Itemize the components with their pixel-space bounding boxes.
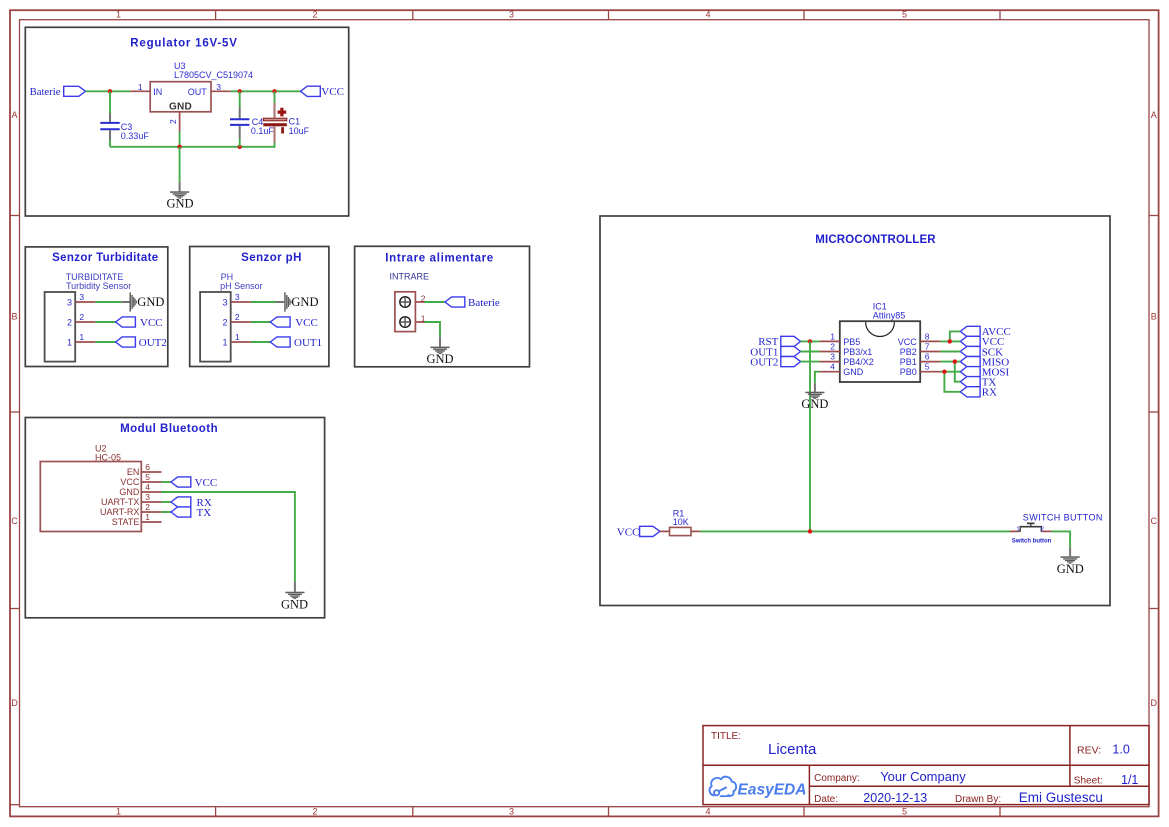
- connector terminal circle pin 1: [400, 317, 411, 328]
- svg-text:INTRARE: INTRARE: [390, 271, 430, 281]
- svg-text:2: 2: [222, 317, 227, 327]
- svg-text:pH Sensor: pH Sensor: [220, 281, 263, 291]
- svg-text:10uF: 10uF: [289, 126, 310, 136]
- bottom rail wire R1 to switch: [700, 530, 1010, 532]
- wire IC1 pin 5 to MOSI flag: [941, 371, 961, 373]
- connector pin 2: [415, 301, 424, 303]
- svg-text:1: 1: [116, 807, 121, 817]
- svg-text:1: 1: [830, 331, 835, 341]
- wire junction down to C4: [239, 91, 241, 107]
- IC1 pin 1 PB5: [819, 340, 840, 342]
- wire U2 UART-RX to TX flag: [162, 511, 172, 513]
- svg-text:Company:: Company:: [814, 773, 860, 784]
- wire MOSI junction down to RX: [944, 372, 960, 392]
- svg-text:2: 2: [312, 10, 317, 20]
- wire junction down to C3: [109, 91, 111, 113]
- IC1 pin 3 PB4/X2: [819, 361, 840, 363]
- wire OUT2 to IC1 pin 3: [801, 361, 820, 363]
- net flag AVCC micro: [960, 326, 980, 336]
- wire pH pin 2 to VCC: [251, 321, 271, 323]
- wire turbidity pin 3 to ground: [95, 301, 121, 303]
- svg-text:1: 1: [1016, 526, 1020, 533]
- svg-text:C1: C1: [289, 117, 301, 127]
- R1 pin 2: [691, 530, 700, 532]
- svg-text:C: C: [11, 516, 18, 526]
- U2 pin 4 GND: [141, 491, 161, 493]
- net flag OUT1 pH: [270, 337, 290, 347]
- svg-text:Regulator 16V-5V: Regulator 16V-5V: [130, 37, 237, 49]
- svg-text:3: 3: [235, 292, 240, 302]
- IC1 pin 5 PB0: [920, 371, 940, 373]
- net flag VCC turbidity: [116, 317, 136, 327]
- svg-text:OUT: OUT: [188, 87, 208, 97]
- net flag RST: [781, 336, 801, 346]
- wire IC1 pin 8 to VCC flag: [941, 340, 961, 342]
- svg-text:2020-12-13: 2020-12-13: [863, 791, 927, 805]
- svg-text:1: 1: [145, 512, 150, 522]
- svg-text:4: 4: [830, 362, 835, 372]
- svg-text:VCC: VCC: [140, 317, 163, 329]
- wire down to ground: [179, 147, 181, 182]
- turbidity pin 2: [75, 321, 95, 323]
- svg-text:5: 5: [902, 807, 907, 817]
- U3 pin 2: [179, 112, 181, 132]
- svg-text:D: D: [11, 698, 18, 708]
- svg-text:VCC: VCC: [195, 477, 218, 489]
- svg-text:3: 3: [79, 292, 84, 302]
- capacitor C1 polarized: [273, 103, 275, 118]
- section box MICROCONTROLLER: [600, 216, 1110, 606]
- junction node bottom rail: [808, 529, 812, 533]
- svg-text:8: 8: [925, 331, 930, 341]
- svg-text:2: 2: [312, 807, 317, 817]
- bottom rail wire: [110, 146, 275, 148]
- svg-text:GND: GND: [426, 352, 453, 366]
- svg-text:RX: RX: [982, 387, 997, 399]
- U3 pin 1: [130, 90, 150, 92]
- svg-text:2: 2: [67, 317, 72, 327]
- IC1 pin 2 PB3/x1: [819, 351, 840, 353]
- svg-text:Drawn By:: Drawn By:: [955, 794, 1001, 805]
- svg-text:GND: GND: [166, 197, 193, 211]
- svg-text:VCC: VCC: [120, 477, 140, 487]
- ground symbol bluetooth: [285, 592, 304, 599]
- svg-text:Intrare alimentare: Intrare alimentare: [385, 252, 494, 264]
- svg-text:3: 3: [222, 297, 227, 307]
- svg-text:Date:: Date:: [814, 794, 838, 805]
- svg-text:UART-RX: UART-RX: [100, 507, 139, 517]
- ground lead intrare: [439, 337, 441, 347]
- junction node pin 6: [953, 359, 957, 363]
- frame column labels bottom: [116, 807, 907, 817]
- svg-text:OUT2: OUT2: [139, 337, 167, 349]
- svg-text:Turbidity Sensor: Turbidity Sensor: [66, 281, 131, 291]
- wire turbidity pin 1 to OUT2: [95, 341, 115, 343]
- svg-text:A: A: [11, 110, 17, 120]
- wire C3 to bottom rail: [109, 140, 111, 147]
- IC1 pin 8 VCC: [920, 340, 940, 342]
- frame row ticks left: [10, 216, 20, 609]
- frame row labels left: [11, 110, 18, 708]
- svg-text:GND: GND: [119, 487, 140, 497]
- ground lead IC1: [814, 383, 816, 392]
- U3 pin 3: [211, 90, 231, 92]
- svg-text:7: 7: [925, 342, 930, 352]
- frame column labels top: [116, 10, 907, 20]
- pH pin 3: [231, 301, 251, 303]
- wire Baterie to U3 pin 1: [86, 90, 131, 92]
- svg-text:1: 1: [222, 337, 227, 347]
- svg-text:1.0: 1.0: [1112, 743, 1129, 757]
- wire C1 to bottom rail corner: [274, 143, 275, 147]
- net flag MISO micro: [960, 357, 980, 367]
- svg-text:GND: GND: [281, 597, 308, 611]
- ground symbol switch: [1061, 556, 1080, 563]
- IC1 pin 7 PB2: [920, 351, 940, 353]
- ground lead bluetooth: [294, 582, 296, 592]
- wire connector pin 2 to Baterie: [424, 301, 445, 303]
- ground lead switch: [1069, 547, 1071, 556]
- svg-text:VCC: VCC: [295, 317, 318, 329]
- svg-text:6: 6: [145, 462, 150, 472]
- wire U2 UART-TX to RX flag: [162, 501, 172, 503]
- junction node GND rail: [177, 145, 181, 149]
- pH pin 2: [231, 321, 251, 323]
- svg-text:4: 4: [145, 482, 150, 492]
- net flag TX micro: [960, 377, 980, 387]
- svg-text:MICROCONTROLLER: MICROCONTROLLER: [815, 234, 936, 246]
- svg-text:1: 1: [235, 332, 240, 342]
- svg-text:5: 5: [902, 10, 907, 20]
- EasyEDA logo: [710, 777, 737, 797]
- svg-text:GND: GND: [843, 367, 864, 377]
- svg-text:GND: GND: [1057, 562, 1084, 576]
- svg-text:GND: GND: [801, 397, 828, 411]
- svg-text:1: 1: [67, 337, 72, 347]
- wire IC1 pin 6 to MISO flag: [941, 361, 961, 363]
- IC1 notch: [866, 322, 895, 336]
- svg-text:Senzor Turbiditate: Senzor Turbiditate: [52, 252, 158, 264]
- svg-text:STATE: STATE: [112, 517, 140, 527]
- svg-text:2: 2: [235, 312, 240, 322]
- net flag VCC bluetooth: [171, 477, 191, 487]
- section box Intrare alimentare: [355, 246, 530, 366]
- junction node C3 top: [108, 89, 112, 93]
- svg-text:5: 5: [145, 472, 150, 482]
- section box Regulator 16V-5V: [25, 27, 348, 216]
- svg-text:PB4/X2: PB4/X2: [843, 357, 874, 367]
- junction node C1 top: [272, 89, 276, 93]
- ground symbol regulator: [170, 191, 189, 198]
- wire OUT1 to IC1 pin 2: [801, 351, 820, 353]
- svg-text:A: A: [1151, 110, 1157, 120]
- svg-text:L7805CV_C519074: L7805CV_C519074: [174, 70, 253, 80]
- svg-text:3: 3: [509, 807, 514, 817]
- svg-text:EN: EN: [127, 467, 140, 477]
- U2 pin 5 VCC: [141, 481, 161, 483]
- svg-text:4: 4: [705, 807, 710, 817]
- svg-text:Switch button: Switch button: [1012, 538, 1052, 544]
- svg-text:SWITCH BUTTON: SWITCH BUTTON: [1023, 513, 1103, 523]
- wire pH pin 3 to ground: [251, 301, 276, 303]
- svg-text:IN: IN: [153, 87, 162, 97]
- svg-text:3: 3: [830, 352, 835, 362]
- svg-text:Your Company: Your Company: [880, 769, 966, 784]
- capacitor C3: [109, 114, 111, 122]
- wire IC1 GND pin elbow: [815, 372, 819, 384]
- wire pH pin 1 to OUT1: [251, 341, 271, 343]
- net flag OUT1: [781, 346, 801, 356]
- svg-text:OUT2: OUT2: [750, 356, 778, 368]
- svg-text:3: 3: [509, 10, 514, 20]
- svg-text:Emi Gustescu: Emi Gustescu: [1019, 790, 1103, 805]
- net flag VCC regulator: [301, 86, 321, 96]
- net flag SCK micro: [960, 346, 980, 356]
- net flag OUT2 micro: [781, 357, 801, 367]
- wire MISO junction down to TX: [955, 362, 961, 382]
- wire RST column down to bottom rail: [809, 341, 811, 531]
- net flag VCC micro: [960, 336, 980, 346]
- svg-text:UART-TX: UART-TX: [101, 497, 139, 507]
- svg-text:EasyEDA: EasyEDA: [738, 782, 807, 799]
- U2 pin 1 STATE: [141, 521, 161, 523]
- svg-text:B: B: [1151, 312, 1157, 322]
- frame column ticks top: [216, 10, 1000, 20]
- svg-text:PB5: PB5: [843, 337, 860, 347]
- svg-text:3: 3: [145, 492, 150, 502]
- section box Modul Bluetooth: [25, 418, 324, 618]
- section box Senzor Turbiditate: [25, 247, 168, 367]
- microcontroller IC1 body: [840, 321, 920, 382]
- svg-text:OUT1: OUT1: [294, 337, 322, 349]
- svg-text:Sheet:: Sheet:: [1074, 776, 1103, 787]
- net flag RX micro: [960, 387, 980, 397]
- junction node C4 top: [238, 89, 242, 93]
- junction node RST column: [808, 339, 812, 343]
- svg-text:VCC: VCC: [617, 527, 640, 539]
- svg-text:1/1: 1/1: [1121, 773, 1138, 787]
- svg-text:VCC: VCC: [898, 337, 918, 347]
- svg-text:PB1: PB1: [900, 357, 917, 367]
- IC1 pin 6 PB1: [920, 361, 940, 363]
- svg-text:VCC: VCC: [321, 86, 344, 98]
- ground symbol IC1: [805, 392, 824, 399]
- wire turbidity pin 2 to VCC: [95, 321, 115, 323]
- switch button S1: [1010, 530, 1020, 532]
- svg-text:Licenta: Licenta: [768, 741, 817, 758]
- ground lead pH: [276, 301, 284, 303]
- wire U2 VCC pin to flag: [162, 481, 172, 483]
- svg-text:0.1uF: 0.1uF: [251, 126, 275, 136]
- wire RST to IC1 pin 1: [801, 340, 820, 342]
- pH sensor connector body: [200, 292, 231, 362]
- svg-text:Baterie: Baterie: [30, 86, 61, 98]
- turbidity pin 1: [75, 341, 95, 343]
- svg-text:GND: GND: [291, 295, 318, 309]
- wire connector pin 1 to ground: [424, 322, 440, 337]
- U2 pin 3 UART-TX: [141, 501, 161, 503]
- svg-text:3: 3: [216, 82, 221, 92]
- net flag Baterie input: [445, 297, 465, 307]
- wire U3 pin 2 to bottom rail: [179, 132, 181, 147]
- junction node C4 bottom: [238, 145, 242, 149]
- svg-text:2: 2: [79, 312, 84, 322]
- ground symbol turbidity: [130, 292, 137, 311]
- U2 pin 2 UART-RX: [141, 511, 161, 513]
- svg-text:3: 3: [67, 297, 72, 307]
- svg-text:TX: TX: [197, 507, 212, 519]
- svg-text:2: 2: [145, 502, 150, 512]
- svg-text:REV:: REV:: [1077, 744, 1101, 756]
- svg-text:2: 2: [168, 119, 178, 124]
- svg-text:C: C: [1151, 516, 1158, 526]
- wire VCC junction up to AVCC: [950, 331, 961, 341]
- R1 pin 1: [660, 530, 670, 532]
- wire IC1 pin 7 to SCK flag: [941, 351, 961, 353]
- ground lead turbidity: [121, 301, 129, 303]
- junction node pin 5: [942, 370, 946, 374]
- svg-text:1: 1: [116, 10, 121, 20]
- svg-text:PB2: PB2: [900, 347, 917, 357]
- svg-text:PB3/x1: PB3/x1: [843, 347, 872, 357]
- svg-text:2: 2: [1040, 526, 1044, 533]
- svg-text:1: 1: [79, 332, 84, 342]
- frame row ticks right: [1149, 216, 1159, 609]
- U2 pin 6 EN: [141, 471, 161, 473]
- net flag VCC pH: [270, 317, 290, 327]
- bluetooth module U2 body: [40, 462, 141, 532]
- net flag Baterie: [64, 86, 86, 96]
- regulator U3 body: [150, 82, 211, 112]
- resistor R1: [670, 527, 692, 535]
- capacitor C4: [239, 107, 241, 118]
- svg-text:GND: GND: [137, 295, 164, 309]
- turbidity sensor connector body: [45, 292, 76, 362]
- net flag RX: [171, 497, 191, 507]
- svg-text:5: 5: [925, 362, 930, 372]
- wire junction down to C1: [274, 91, 276, 103]
- net flag MOSI micro: [960, 367, 980, 377]
- svg-text:0.33uF: 0.33uF: [121, 131, 150, 141]
- wire U2 GND pin to ground: [162, 492, 295, 582]
- svg-text:Attiny85: Attiny85: [873, 311, 906, 321]
- svg-text:B: B: [11, 312, 17, 322]
- pH pin 1: [231, 341, 251, 343]
- title block border: [703, 726, 1149, 805]
- wire C4 to bottom rail: [239, 139, 241, 147]
- frame row labels right: [1151, 110, 1158, 708]
- net flag TX: [171, 507, 191, 517]
- wire switch to ground: [1051, 531, 1070, 547]
- wire U3 pin 3 to VCC: [231, 90, 301, 92]
- frame corner notch bottom left: [10, 804, 20, 806]
- svg-text:D: D: [1151, 698, 1158, 708]
- IC1 pin 4 GND: [819, 371, 840, 373]
- svg-text:4: 4: [705, 10, 710, 20]
- net flag OUT2: [116, 337, 136, 347]
- svg-text:2: 2: [830, 342, 835, 352]
- ground symbol pH: [284, 292, 291, 311]
- svg-text:Modul Bluetooth: Modul Bluetooth: [120, 423, 218, 435]
- section box Senzor pH: [190, 247, 329, 367]
- ground symbol intrare: [430, 347, 449, 354]
- connector pin 1: [415, 321, 424, 323]
- frame column ticks bottom: [216, 807, 1000, 817]
- svg-text:GND: GND: [169, 101, 192, 112]
- svg-text:Senzor pH: Senzor pH: [241, 252, 302, 264]
- svg-text:Baterie: Baterie: [468, 297, 500, 309]
- junction node pin 8: [948, 339, 952, 343]
- power connector body: [395, 292, 416, 332]
- svg-text:PB0: PB0: [900, 367, 917, 377]
- svg-text:10K: 10K: [673, 517, 689, 527]
- svg-text:1: 1: [138, 82, 143, 92]
- svg-text:6: 6: [925, 352, 930, 362]
- connector terminal circle pin 2: [400, 297, 411, 308]
- svg-text:TITLE:: TITLE:: [711, 731, 741, 742]
- turbidity pin 3: [75, 301, 95, 303]
- ground lead: [179, 182, 181, 192]
- net flag VCC pullup: [640, 526, 660, 536]
